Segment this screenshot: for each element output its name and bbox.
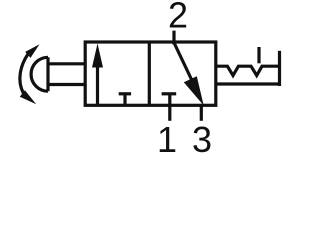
svg-text:3: 3 [192,119,212,155]
svg-text:1: 1 [157,119,177,155]
svg-text:2: 2 [168,0,188,36]
